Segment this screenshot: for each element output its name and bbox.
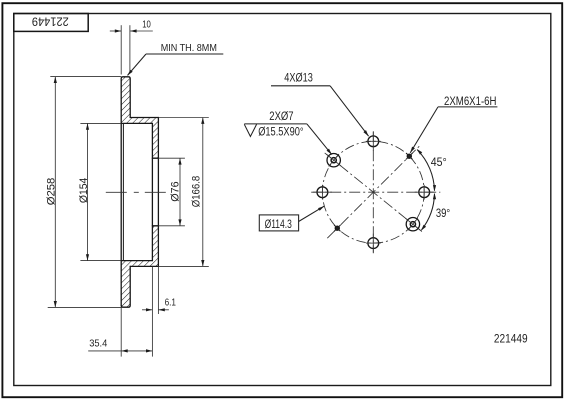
svg-text:Ø258: Ø258 [46, 178, 58, 206]
svg-text:Ø166.8: Ø166.8 [190, 176, 202, 208]
svg-text:Ø15.5X90°: Ø15.5X90° [258, 127, 303, 139]
svg-text:221449: 221449 [32, 14, 69, 28]
svg-text:10: 10 [142, 18, 151, 30]
svg-text:39°: 39° [436, 208, 450, 220]
svg-text:6.1: 6.1 [165, 297, 177, 309]
svg-text:Ø114.3: Ø114.3 [265, 219, 292, 231]
svg-text:2XM6X1-6H: 2XM6X1-6H [444, 96, 497, 108]
svg-text:2XØ7: 2XØ7 [269, 111, 293, 123]
svg-text:221449: 221449 [494, 331, 528, 345]
svg-text:MIN TH. 8MM: MIN TH. 8MM [161, 42, 217, 54]
svg-text:35.4: 35.4 [89, 338, 107, 350]
svg-text:Ø154: Ø154 [78, 178, 90, 204]
svg-text:4XØ13: 4XØ13 [284, 73, 313, 85]
svg-text:Ø76: Ø76 [169, 181, 181, 201]
svg-text:45°: 45° [431, 157, 447, 169]
